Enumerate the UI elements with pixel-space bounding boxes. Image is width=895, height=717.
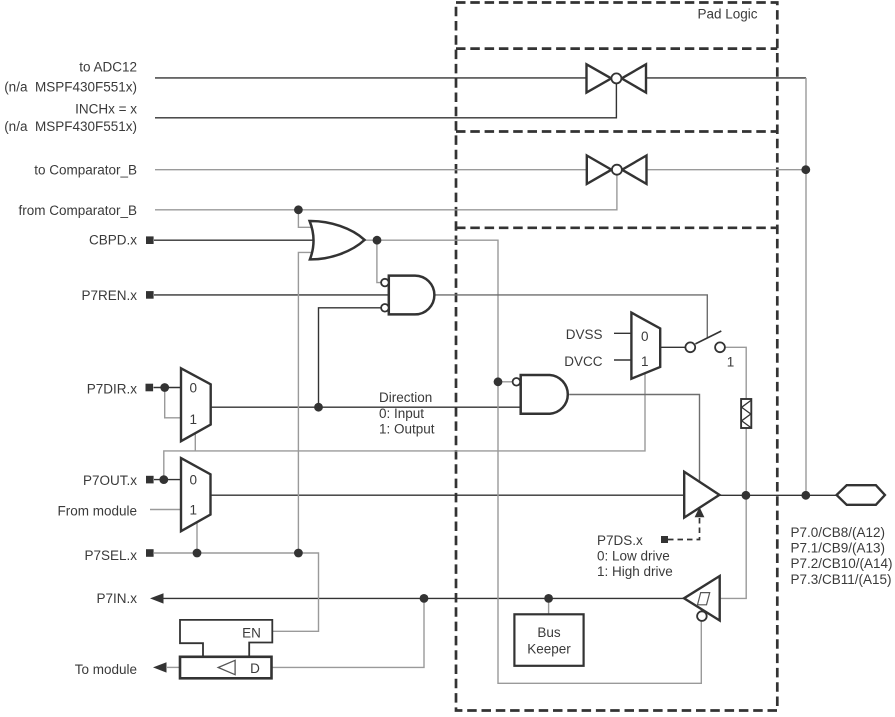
transmission gate TG1 bubble <box>611 73 621 83</box>
svg-text:P7REN.x: P7REN.x <box>81 288 137 303</box>
wire resistor to pad <box>745 428 747 495</box>
P7DS dashed control <box>668 518 700 540</box>
svg-text:(n/a MSPF430F551x): (n/a MSPF430F551x) <box>4 119 137 134</box>
svg-text:CBPD.x: CBPD.x <box>89 232 137 247</box>
node OR output junction <box>373 236 382 245</box>
svg-text:P7.2/CB10/(A14): P7.2/CB10/(A14) <box>791 556 893 571</box>
svg-text:Direction: Direction <box>379 390 432 405</box>
wire to Comparator_B <box>155 169 587 171</box>
svg-text:P7DS.x: P7DS.x <box>597 533 643 548</box>
resistor R1 body <box>741 399 751 428</box>
wire OR input 1 <box>298 210 314 228</box>
node P7DIR junction <box>160 383 169 392</box>
wire INCHx control <box>155 83 616 117</box>
wire P7SEL.x to EN latch <box>154 553 319 631</box>
square terminal CBPD.x <box>146 236 154 244</box>
nand gate U2 input bubble 2 <box>381 304 389 312</box>
svg-text:P7.0/CB8/(A12): P7.0/CB8/(A12) <box>791 525 886 540</box>
svg-text:DVSS: DVSS <box>566 327 603 342</box>
node NAND2 input junction <box>494 377 503 386</box>
svg-text:P7OUT.x: P7OUT.x <box>83 473 137 488</box>
schmitt enable bubble <box>697 611 707 621</box>
wire NAND2 input 1 <box>498 381 513 383</box>
node TG2 pad column junction <box>801 165 810 174</box>
svg-text:EN: EN <box>242 626 261 641</box>
schmitt hysteresis glyph <box>698 593 710 605</box>
wire From module <box>150 509 181 511</box>
wire DVSS input <box>614 332 631 334</box>
svg-text:(n/a MSPF430F551x): (n/a MSPF430F551x) <box>4 80 137 95</box>
svg-text:1: 1 <box>641 354 649 369</box>
wire switch to resistor <box>725 347 746 399</box>
wire OR output to bus keeper enable <box>365 240 702 683</box>
wire TG1 output to pad column <box>646 77 806 79</box>
dashed separator 1 <box>456 47 777 50</box>
wire Direction mux output <box>211 406 521 408</box>
nand gate U4 input bubble <box>513 378 521 386</box>
latch D box <box>180 657 272 679</box>
dashed separator 2 <box>456 130 777 133</box>
node pad column junction <box>801 491 810 500</box>
resistor R1 zigzag <box>742 401 751 428</box>
svg-text:Pad Logic: Pad Logic <box>697 6 757 21</box>
wire NAND2 output to driver enable <box>569 395 699 482</box>
wire to ADC12 <box>155 77 587 79</box>
transmission gate TG1 right triangle <box>622 64 646 92</box>
svg-text:from Comparator_B: from Comparator_B <box>18 203 137 218</box>
bus keeper box <box>514 614 583 666</box>
svg-text:INCHx = x: INCHx = x <box>75 102 137 117</box>
mux M1 P7DIR trapezoid <box>181 368 211 441</box>
svg-text:P7.1/CB9/(A13): P7.1/CB9/(A13) <box>791 540 886 555</box>
transmission gate TG2 bubble <box>612 165 622 175</box>
svg-text:0: 0 <box>189 472 197 487</box>
svg-text:1: 1 <box>189 412 197 427</box>
svg-text:To module: To module <box>75 662 137 677</box>
P7DS arrowhead <box>695 507 705 517</box>
svg-text:1: 1 <box>189 503 197 518</box>
latch EN block <box>180 620 272 657</box>
node bus keeper junction <box>544 594 553 603</box>
mux M2 P7OUT trapezoid <box>181 458 211 531</box>
wire P7REN.x to NAND <box>154 294 389 296</box>
wire P7DIR.x input <box>154 387 182 389</box>
wire TG2 output <box>647 169 806 171</box>
square terminal P7REN.x <box>146 291 154 299</box>
svg-text:0: Low drive: 0: Low drive <box>597 549 670 564</box>
square terminal P7DIR.x <box>146 384 154 392</box>
svg-text:P7IN.x: P7IN.x <box>96 591 137 606</box>
svg-text:0: 0 <box>641 329 649 344</box>
transmission gate TG1 left triangle <box>587 64 612 92</box>
nand gate U2 input bubble 1 <box>381 279 389 287</box>
svg-text:0: Input: 0: Input <box>379 406 424 421</box>
wire P7DIR branch to mux input 1 <box>165 388 181 418</box>
transmission gate TG2 right triangle <box>622 156 647 184</box>
wire OR output to NAND input 1 <box>377 240 381 282</box>
wire schmitt input <box>720 495 747 598</box>
svg-text:0: 0 <box>189 381 197 396</box>
mux M3 DVSS DVCC trapezoid <box>631 313 660 379</box>
wire mux3 output to switch <box>660 346 685 348</box>
wire output mux to driver <box>211 494 685 496</box>
svg-text:1: 1 <box>727 354 735 369</box>
square terminal P7OUT.x <box>146 476 154 484</box>
svg-text:P7.3/CB11/(A15): P7.3/CB11/(A15) <box>791 572 892 587</box>
pad hexagon <box>837 485 885 505</box>
output driver U3 <box>684 472 719 518</box>
latch clock triangle <box>218 660 235 674</box>
input schmitt buffer U5 <box>684 576 720 621</box>
wire D latch input <box>272 598 425 667</box>
wire pad column vertical <box>805 78 807 495</box>
arrowhead P7IN.x <box>150 593 164 603</box>
wire CBPD.x to OR gate <box>154 239 314 241</box>
wire bus keeper connect <box>548 598 550 614</box>
arrowhead To module <box>153 662 167 672</box>
node from Comparator_B junction <box>294 205 303 214</box>
svg-text:D: D <box>250 661 260 676</box>
node pad resistor junction <box>742 491 751 500</box>
square terminal P7SEL.x <box>146 549 154 557</box>
Pad Logic outer dashed box <box>456 3 777 711</box>
dashed separator 3 <box>456 226 777 229</box>
svg-text:P7DIR.x: P7DIR.x <box>87 382 138 397</box>
svg-text:P7SEL.x: P7SEL.x <box>84 548 137 563</box>
switch S1 right contact <box>715 342 725 352</box>
wire OR input 3 from P7SEL <box>298 252 314 553</box>
nand gate U4 body <box>521 375 568 414</box>
wire direction to NAND input 3 <box>319 308 382 407</box>
svg-text:Bus: Bus <box>537 625 561 640</box>
wire pad line <box>719 494 836 496</box>
nand gate U2 body <box>389 276 435 315</box>
switch S1 lever <box>695 331 721 344</box>
wire P7IN.x <box>163 597 684 599</box>
node P7IN D junction <box>420 594 429 603</box>
node mux2 select junction <box>193 549 202 558</box>
svg-text:From module: From module <box>57 504 137 519</box>
node P7SEL junction <box>294 549 303 558</box>
wire DVCC input <box>614 359 631 361</box>
P7DS square terminal <box>661 536 668 543</box>
or-gate U1 <box>310 221 365 259</box>
wire NAND1 output to switch control <box>435 295 708 338</box>
svg-text:to Comparator_B: to Comparator_B <box>34 163 137 178</box>
wire To module <box>167 666 180 668</box>
node Direction junction <box>314 403 323 412</box>
svg-text:Keeper: Keeper <box>527 642 571 657</box>
svg-text:DVCC: DVCC <box>564 354 603 369</box>
svg-text:1: Output: 1: Output <box>379 422 435 437</box>
wire mux2 select leg <box>196 522 198 553</box>
transmission gate TG2 left triangle <box>587 156 612 184</box>
svg-text:to ADC12: to ADC12 <box>79 60 137 75</box>
wire mux1 select leg <box>194 433 196 451</box>
svg-text:1: High drive: 1: High drive <box>597 564 673 579</box>
wire P7OUT.x input <box>154 479 181 481</box>
wire P7OUT branch to mux3 select <box>164 373 645 479</box>
wire from Comparator_B control <box>155 175 617 210</box>
switch S1 left contact <box>685 342 695 352</box>
node P7OUT junction <box>159 475 168 484</box>
